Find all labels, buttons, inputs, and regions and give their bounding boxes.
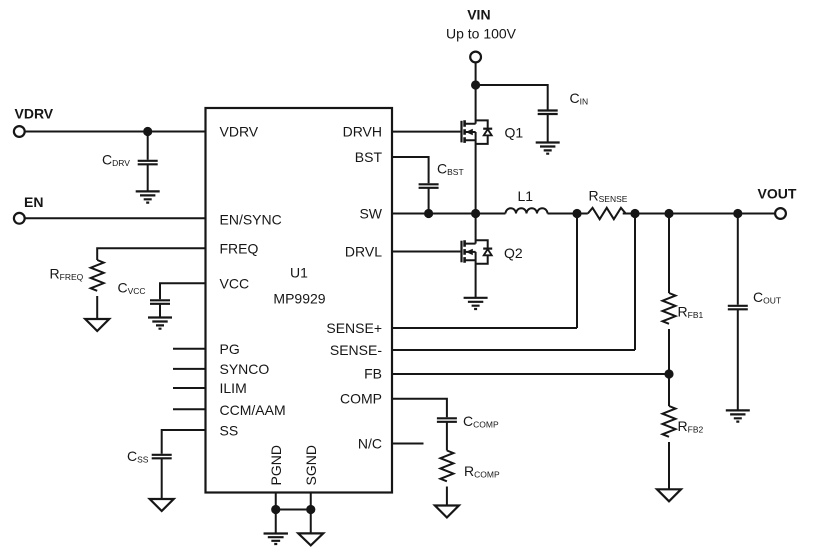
svg-text:RFB2: RFB2 (678, 418, 704, 435)
pin stub SYNCO (173, 368, 206, 370)
pin label VCC (220, 275, 250, 291)
pin label PGND (rotated) (268, 445, 284, 485)
label COUT (753, 289, 781, 306)
wire CDRV branch (147, 132, 149, 160)
terminal VOUT (775, 208, 786, 219)
label RFREQ (50, 266, 84, 283)
wire VIN to CIN (476, 85, 548, 110)
IC U1 MP9929 body (206, 108, 393, 493)
node VDRV junction (143, 127, 152, 136)
svg-text:CCM/AAM: CCM/AAM (220, 402, 286, 418)
label Q2 (504, 245, 523, 261)
label U1 (290, 265, 308, 281)
wire COMP to CCOMP (392, 399, 447, 418)
resistor RSENSE (588, 208, 626, 219)
resistor RFB1 upper wire (668, 214, 670, 294)
svg-text:DRVH: DRVH (343, 124, 382, 140)
wire BST to CBST (392, 157, 429, 183)
wire CVCC to ground (159, 304, 161, 318)
label Up to 100V (446, 26, 517, 42)
wire EN terminal to pin (25, 217, 206, 219)
resistor RFB2 (663, 406, 676, 437)
svg-text:CCOMP: CCOMP (463, 413, 499, 430)
label RFB2 (678, 418, 704, 435)
label VOUT (bold) (758, 186, 797, 202)
node SENSE- junction (630, 209, 639, 218)
svg-text:ILIM: ILIM (220, 380, 247, 396)
pin label DRVH (343, 124, 382, 140)
label CBST (437, 161, 464, 178)
ground SGND (triangle) (298, 533, 323, 545)
svg-text:U1: U1 (290, 265, 308, 281)
ground RCOMP (triangle) (435, 506, 459, 518)
ground CIN (earth) (536, 143, 560, 154)
svg-text:CBST: CBST (437, 161, 464, 178)
wire SS pin to CSS (162, 430, 206, 454)
pin stub PG (173, 348, 206, 350)
label VIN (bold) (467, 7, 490, 23)
svg-text:DRVL: DRVL (345, 244, 382, 260)
wire FREQ pin to RFREQ (97, 248, 205, 260)
label RFB1 (678, 304, 704, 321)
svg-text:VOUT: VOUT (758, 186, 797, 202)
wire RFB1 to FB node (668, 329, 670, 374)
pin label SENSE+ (326, 320, 382, 336)
node SENSE+ junction (572, 209, 581, 218)
node COUT junction (733, 209, 742, 218)
svg-text:VDRV: VDRV (220, 124, 259, 140)
label RCOMP (464, 463, 500, 480)
pin stub ILIM (173, 387, 206, 389)
svg-text:CDRV: CDRV (102, 152, 130, 169)
node FB junction (664, 369, 673, 378)
wire COUT to ground (737, 309, 739, 410)
wire CDRV to ground (147, 164, 149, 191)
terminal VDRV (14, 126, 25, 137)
pin stub N/C (392, 443, 424, 445)
wire DRVH to Q1 gate (392, 131, 460, 133)
svg-text:CVCC: CVCC (118, 280, 146, 297)
svg-text:VDRV: VDRV (15, 106, 54, 122)
ground CVCC (earth) (148, 318, 172, 329)
label RSENSE (589, 188, 628, 205)
svg-text:EN: EN (24, 194, 43, 210)
svg-text:EN/SYNC: EN/SYNC (220, 212, 282, 228)
capacitor CCOMP (437, 418, 457, 422)
wire VIN down (475, 62, 477, 85)
label L1 (518, 188, 534, 204)
wire DRVL to Q2 gate (392, 251, 460, 253)
svg-text:SYNCO: SYNCO (220, 361, 270, 377)
svg-text:BST: BST (355, 149, 383, 165)
terminal EN (14, 213, 25, 224)
wire FB pin (392, 373, 669, 375)
svg-text:RFB1: RFB1 (678, 304, 704, 321)
svg-text:CIN: CIN (570, 90, 589, 107)
label Q1 (505, 124, 524, 140)
pin label PG (220, 341, 240, 357)
label CVCC (118, 280, 146, 297)
svg-text:PG: PG (220, 341, 240, 357)
wire RFREQ to ground (96, 296, 98, 319)
node CBST-SW junction (424, 209, 433, 218)
svg-text:Q2: Q2 (504, 245, 523, 261)
svg-text:MP9929: MP9929 (273, 291, 325, 307)
svg-text:FB: FB (364, 366, 382, 382)
node VIN junction (471, 80, 480, 89)
pin stub CCM/AAM (173, 408, 206, 410)
capacitor COUT (728, 306, 748, 310)
transistor Q1 (N-MOSFET) (462, 85, 493, 214)
pin label VDRV (220, 124, 259, 140)
pin label ILIM (220, 380, 247, 396)
label CDRV (102, 152, 130, 169)
node SW-Q junction (471, 209, 480, 218)
wire VCC pin to CVCC (160, 283, 206, 299)
pin label FB (364, 366, 382, 382)
pin label SENSE- (330, 342, 382, 358)
label CCOMP (463, 413, 499, 430)
svg-text:PGND: PGND (268, 445, 284, 485)
svg-text:RCOMP: RCOMP (464, 463, 500, 480)
label CSS (127, 448, 149, 465)
node PGND junction (271, 505, 280, 514)
wire FB node to RFB2 (668, 374, 670, 406)
ground RFREQ (triangle) (85, 319, 109, 331)
resistor RFB1 (663, 293, 676, 324)
ground CDRV (earth) (136, 191, 160, 202)
svg-text:N/C: N/C (358, 436, 382, 452)
pin label SGND (rotated) (303, 445, 319, 485)
capacitor CIN (538, 111, 558, 115)
wire CSS to ground (161, 458, 163, 499)
node SGND junction (306, 505, 315, 514)
wire PGND to ground (275, 510, 277, 534)
pin label CCM/AAM (220, 402, 286, 418)
ground RFB2 (triangle) (657, 489, 681, 501)
pin label FREQ (220, 240, 259, 256)
pin label COMP (340, 391, 382, 407)
pin label SS (220, 423, 239, 439)
pin label SW (359, 206, 382, 222)
ground PGND (earth) (264, 534, 288, 545)
resistor RFREQ (91, 260, 104, 291)
inductor L1 (506, 208, 548, 213)
wire COUT top (737, 214, 739, 305)
svg-text:COUT: COUT (753, 289, 781, 306)
svg-text:VCC: VCC (220, 275, 250, 291)
wire CIN to ground (547, 114, 549, 143)
ground CSS (triangle) (150, 499, 174, 511)
wire SENSE+ pin (392, 214, 577, 329)
svg-text:L1: L1 (518, 188, 534, 204)
transistor Q2 (N-MOSFET) (462, 214, 493, 298)
svg-text:CSS: CSS (127, 448, 149, 465)
wire PGND pin down (275, 493, 277, 510)
svg-text:COMP: COMP (340, 391, 382, 407)
svg-text:FREQ: FREQ (220, 240, 259, 256)
wire SGND to ground (310, 510, 312, 534)
svg-text:SW: SW (359, 206, 382, 222)
ground Q2 (earth) (464, 298, 488, 309)
capacitor CDRV (138, 161, 158, 165)
wire RSENSE to VOUT (623, 213, 775, 215)
capacitor CVCC (150, 300, 170, 304)
wire SENSE- pin (392, 214, 635, 351)
capacitor CSS (152, 455, 172, 459)
wire RCOMP to ground (446, 487, 448, 506)
resistor RCOMP (440, 451, 453, 482)
wire CCOMP to RCOMP (446, 422, 448, 451)
label VDRV (bold) (15, 106, 54, 122)
svg-text:RSENSE: RSENSE (589, 188, 628, 205)
pin label N/C (358, 436, 382, 452)
pin label SYNCO (220, 361, 270, 377)
label CIN (570, 90, 589, 107)
pin label BST (355, 149, 383, 165)
wire SGND pin down (310, 493, 312, 510)
label MP9929 (273, 291, 325, 307)
terminal VIN (470, 52, 481, 63)
wire L1 to RSENSE (548, 213, 588, 215)
wire RFB2 to ground (668, 442, 670, 489)
node FB rail junction (664, 209, 673, 218)
label EN (bold) (24, 194, 43, 210)
svg-text:SS: SS (220, 423, 239, 439)
svg-text:RFREQ: RFREQ (50, 266, 84, 283)
wire CBST to SW node (428, 188, 430, 214)
pin label EN/SYNC (220, 212, 282, 228)
svg-text:SENSE+: SENSE+ (326, 320, 382, 336)
svg-text:Q1: Q1 (505, 124, 524, 140)
wire SW pin to L1 (392, 213, 506, 215)
capacitor CBST (419, 184, 439, 188)
pin label DRVL (345, 244, 382, 260)
svg-text:SGND: SGND (303, 445, 319, 485)
svg-text:VIN: VIN (467, 7, 490, 23)
wire PGND-SGND link (276, 509, 311, 511)
svg-text:SENSE-: SENSE- (330, 342, 382, 358)
wire VDRV terminal to pin (25, 131, 206, 133)
ground COUT (earth) (726, 410, 750, 421)
svg-text:Up to 100V: Up to 100V (446, 26, 517, 42)
